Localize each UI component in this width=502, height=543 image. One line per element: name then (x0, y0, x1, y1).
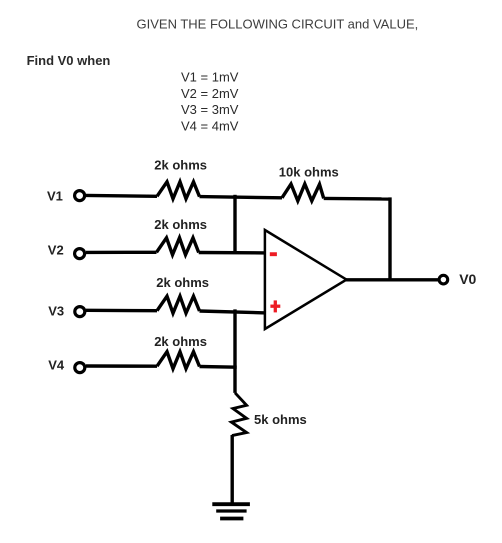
svg-text:2k ohms: 2k ohms (154, 217, 207, 232)
svg-text:V4: V4 (48, 357, 65, 372)
svg-text:V2: V2 (48, 242, 64, 257)
svg-text:2k ohms: 2k ohms (154, 158, 207, 173)
svg-text:V3 = 3mV: V3 = 3mV (181, 102, 239, 117)
svg-text:GIVEN THE FOLLOWING CIRCUIT an: GIVEN THE FOLLOWING CIRCUIT and VALUE, (137, 17, 419, 32)
svg-text:V1 = 1mV: V1 = 1mV (181, 70, 239, 85)
svg-text:V0: V0 (459, 271, 476, 287)
svg-text:V2 = 2mV: V2 = 2mV (181, 86, 239, 101)
svg-text:Find V0 when: Find V0 when (27, 53, 111, 68)
svg-text:5k ohms: 5k ohms (254, 412, 307, 427)
svg-text:2k ohms: 2k ohms (156, 275, 209, 290)
svg-text:V3: V3 (48, 303, 64, 318)
svg-text:2k ohms: 2k ohms (154, 334, 207, 349)
svg-text:10k ohms: 10k ohms (279, 164, 339, 179)
svg-text:V4 = 4mV: V4 = 4mV (181, 119, 239, 134)
svg-text:V1: V1 (47, 188, 63, 203)
